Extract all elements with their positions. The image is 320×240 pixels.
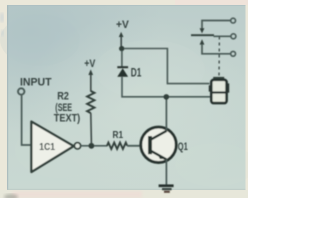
power +V arrow (D1 branch) (119, 32, 124, 47)
inverter IC1 output bubble (74, 143, 80, 149)
power +V arrow (R2) (88, 69, 93, 91)
svg-text:+V: +V (84, 58, 95, 70)
relay armature bar (common) (191, 35, 231, 36)
resistor R2 (87, 91, 94, 144)
wire IC1 output to junction (81, 145, 89, 147)
wire +V junction to relay coil top terminal (124, 49, 209, 84)
svg-text:R2: R2 (57, 91, 69, 103)
resistor R1 (107, 143, 127, 149)
schematic panel background (7, 5, 246, 190)
svg-text:+V: +V (116, 19, 129, 31)
svg-text:TEXT): TEXT) (54, 113, 81, 125)
wire junction to R1 (94, 145, 108, 147)
node junction +V / D1 / coil-top wire (119, 46, 124, 51)
dashed link armature to coil (218, 37, 220, 78)
label R2 (SEE TEXT) (54, 91, 81, 125)
svg-text:D1: D1 (131, 66, 142, 79)
terminal NO (231, 51, 236, 56)
contact arrow (down, NC) (200, 28, 205, 33)
svg-text:R1: R1 (113, 130, 124, 141)
relay contact NC wire (top) (202, 21, 230, 29)
terminal common (231, 34, 236, 39)
node junction IC1 out / R2 / R1 (89, 143, 95, 149)
relay coil K1 (209, 77, 229, 103)
terminal NC (231, 18, 236, 23)
wire Q1 emitter to ground (165, 159, 167, 185)
terminal INPUT (18, 88, 24, 94)
wire R1 to Q1 base (127, 145, 148, 147)
wire Q1 collector (165, 96, 167, 130)
ground (159, 184, 174, 192)
contact arrow (up, NO) + wire (200, 39, 231, 54)
svg-text:Q1: Q1 (178, 141, 188, 153)
paper margin background (0, 0, 248, 198)
diode D1 (117, 66, 128, 77)
wire D1 anode to coil bottom terminal (via collector node) (122, 77, 211, 97)
transistor Q1 (141, 127, 176, 162)
wire junction down to D1 cathode (121, 51, 123, 67)
node junction collector / D1 / coil (164, 94, 170, 100)
inverter IC1 body (31, 122, 73, 172)
svg-text:INPUT: INPUT (20, 77, 52, 89)
wire input to IC1 (22, 95, 31, 145)
svg-text:1C1: 1C1 (39, 142, 55, 153)
